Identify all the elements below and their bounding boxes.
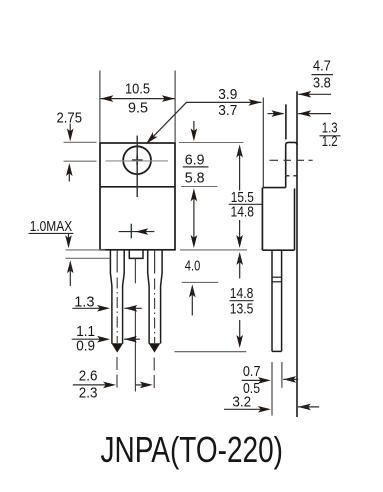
3.2 arrow right [298, 404, 319, 411]
label 3.9 [218, 87, 237, 103]
2.6/2.3 arrow right [135, 382, 152, 389]
2.75 extension line upper [64, 141, 97, 143]
package body outline (front view) [100, 143, 175, 250]
3.2 arrow left [224, 406, 271, 413]
svg-text:0.7: 0.7 [243, 364, 261, 380]
label 3.2 [232, 394, 251, 410]
1.3/1.2 arrow right [298, 110, 331, 117]
label 1.3 side [322, 121, 338, 137]
label 10.5 [125, 81, 150, 97]
svg-text:3.7: 3.7 [218, 103, 237, 119]
label 0.7 [243, 364, 261, 380]
lead 2 (middle) stub [129, 250, 143, 259]
side view lead crimp marks [272, 277, 282, 282]
lead 2 centerline [134, 258, 136, 391]
svg-text:4.7: 4.7 [313, 58, 331, 74]
lead 1 tip [111, 343, 123, 352]
2.75 extension line lower [64, 160, 97, 162]
label 5.8 [185, 171, 205, 187]
label 3.7 [218, 103, 237, 119]
lead thickness extension line back [281, 362, 283, 388]
label 13.5 [230, 302, 254, 318]
body bottom extension line left [66, 249, 106, 251]
label 2.75 [57, 110, 83, 126]
label 6.9 [185, 152, 205, 168]
label 14.8 upper [231, 204, 255, 220]
1.1/0.9 arrow right [124, 336, 140, 343]
svg-text:2.3: 2.3 [79, 386, 98, 402]
label 9.5 [128, 100, 148, 116]
1.0MAX bottom arrow [67, 260, 74, 286]
fraction bar 1.3/1.2 [320, 135, 341, 137]
label 3.8 [313, 75, 331, 91]
2.6/2.3 arrow left [73, 382, 116, 389]
svg-text:0.9: 0.9 [76, 338, 95, 354]
label 1.1 [76, 324, 95, 340]
shoulder extension line left [66, 257, 111, 259]
15.5/14.8 top arrow [236, 145, 243, 191]
label 4.0 [185, 258, 201, 274]
svg-text:3.8: 3.8 [313, 75, 331, 91]
side view tab front face [285, 104, 287, 187]
14.8/13.5 top arrow [236, 252, 243, 279]
0.7/0.5 bar arrow [242, 377, 271, 384]
label 14.8 lower [230, 286, 254, 302]
lead width datum pointer [119, 224, 155, 239]
1.3 arrow left [72, 305, 110, 312]
label 1.2 [322, 134, 338, 150]
side view lead outline [272, 250, 282, 351]
label 4.7 [313, 58, 331, 74]
label 2.3 [79, 386, 98, 402]
side view hole centerline [270, 159, 313, 161]
body top extension line right [179, 142, 244, 144]
6.9-4.0 chain arrows [191, 188, 198, 248]
side view front extension line [262, 98, 264, 188]
svg-text:3.2: 3.2 [232, 394, 251, 410]
mounting hole circle [123, 146, 151, 174]
svg-text:10.5: 10.5 [125, 81, 150, 97]
width extension line left [99, 71, 101, 144]
fraction bar 4.7/3.8 [312, 74, 334, 76]
svg-text:JNPA(TO-220): JNPA(TO-220) [101, 429, 284, 470]
15.5/14.8 bottom arrow [236, 220, 243, 248]
label 1.0MAX [30, 219, 73, 235]
svg-text:1.0MAX: 1.0MAX [30, 219, 73, 235]
1.1/0.9 arrow left [72, 336, 110, 343]
side view body front face [261, 188, 263, 251]
hole diameter leader 3.9/3.7 [144, 99, 262, 146]
lead taper extension line [182, 281, 219, 283]
svg-text:14.8: 14.8 [230, 286, 254, 302]
lead 3 centerline [153, 250, 155, 391]
label 1.3 lead [74, 295, 94, 311]
lead 3 (right) outline [148, 250, 162, 344]
4.7/3.8 arrow [298, 91, 331, 98]
tab/body divider line [100, 186, 175, 188]
hole horizontal centerline [106, 160, 169, 162]
label 2.6 [79, 369, 98, 385]
fraction bar 15.5/14.8 [229, 203, 263, 205]
svg-text:5.8: 5.8 [185, 171, 205, 187]
hole vertical centerline [136, 136, 138, 198]
svg-text:2.75: 2.75 [57, 110, 83, 126]
svg-text:3.9: 3.9 [218, 87, 237, 103]
side view body bottom [262, 249, 294, 251]
2.75 top arrow [67, 124, 74, 142]
14.8/13.5 bottom arrow [236, 320, 243, 348]
side view tab step line [263, 187, 286, 189]
svg-text:14.8: 14.8 [231, 204, 255, 220]
label 15.5 [231, 190, 254, 206]
lead 1 centerline [116, 250, 118, 391]
4.0 bottom arrow [189, 284, 196, 315]
1.3/1.2 arrow left [268, 110, 285, 117]
2.75 bottom arrow [66, 163, 73, 181]
lead 1 (left) outline [110, 250, 124, 344]
svg-text:9.5: 9.5 [128, 100, 148, 116]
svg-text:1.2: 1.2 [322, 134, 338, 150]
width extension line right [174, 71, 176, 144]
1.0MAX underline and arrow [29, 233, 74, 248]
side view body back face [294, 188, 296, 250]
dimension line 10.5/9.5 [100, 95, 174, 102]
0.7/0.5 arrow right [283, 376, 298, 383]
body bottom extension line right [180, 249, 247, 251]
label 0.9 [76, 338, 95, 354]
side view hole hidden line [286, 175, 298, 177]
lead thickness extension line front [271, 362, 273, 416]
hole center cross [132, 156, 143, 165]
6.9/5.8 top arrow [191, 121, 198, 141]
divider extension line right [181, 186, 218, 188]
svg-text:2.6: 2.6 [79, 369, 98, 385]
1.3 arrow right [124, 305, 141, 312]
lead tip extension line [175, 351, 247, 353]
lead 3 tip [149, 343, 161, 352]
side view back face [296, 91, 298, 417]
side view hole boss [286, 142, 298, 175]
fraction bar 6.9/5.8 [183, 166, 209, 168]
label 0.5 [243, 381, 260, 397]
svg-text:13.5: 13.5 [230, 302, 254, 318]
svg-text:4.0: 4.0 [185, 258, 201, 274]
caption JNPA(TO-220) [101, 429, 284, 470]
fraction bar 14.8/13.5 [230, 300, 254, 302]
svg-text:6.9: 6.9 [185, 152, 205, 168]
